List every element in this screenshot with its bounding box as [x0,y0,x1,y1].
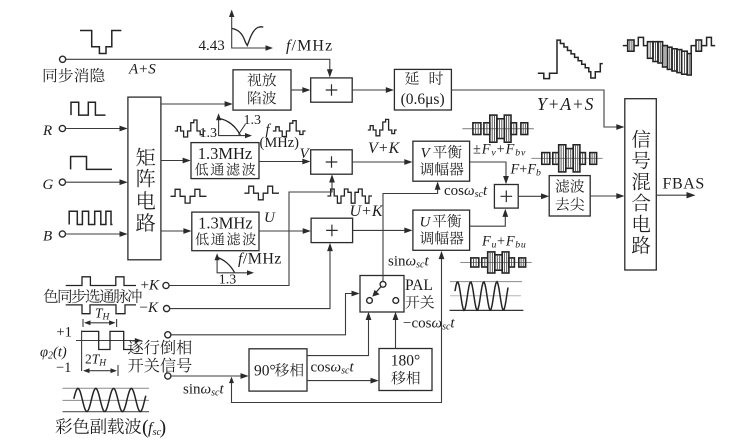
PAL switch left contact [367,298,373,304]
svg-text:U+K: U+K [350,203,384,220]
svg-text:φ2(t): φ2(t) [40,344,67,361]
block video notch 视放陷波 [233,70,291,110]
waveform staircase Y+A+S [538,40,603,79]
waveform burst packet F [531,157,602,159]
wire subcarrier branch to U modulator [232,257,442,403]
PAL switch lever [375,286,381,293]
waveform V before LPF [175,120,206,137]
waveform G single pulse [71,157,112,170]
wire notch to adder1 [291,89,306,91]
PAL switch pole contact [380,281,386,287]
svg-text:1.3MHz: 1.3MHz [198,144,253,163]
notch response curve axes 4.43 f/MHz [232,15,269,49]
svg-text:1.3MHz: 1.3MHz [198,213,253,232]
node -K terminal [164,306,170,312]
waveform U before LPF [171,189,207,203]
wire +K to V adder [169,178,332,285]
svg-text:PAL: PAL [405,277,433,294]
block U balanced modulator U平衡调幅器 [413,210,470,250]
PAL switch right contact [393,298,399,304]
waveform U+K pulses [327,189,372,203]
wire matrix to video notch [161,103,229,105]
wire 90 to PAL switch direct cos [307,316,369,356]
block 180 degree phase shifter 180°移相 [379,349,432,391]
svg-text:−1: −1 [56,360,71,376]
svg-text:1.3: 1.3 [244,113,262,128]
svg-text:U: U [264,210,276,226]
wire R to matrix [66,128,124,130]
node +K terminal [163,282,169,288]
wire switch signal to PAL switch [171,294,355,335]
svg-text:−K: −K [140,300,159,316]
node sync-blanking input terminal [60,56,66,62]
block 1.3MHz lowpass V [191,143,259,179]
wire V modulator to chroma adder [470,162,506,180]
LPF response curve 1.3 with pointer [219,118,248,136]
label 逐行倒相开关信号 [128,340,192,355]
block matrix circuit 矩阵电路 [128,97,161,260]
wire -K to U adder [170,247,330,309]
waveform burst gate -K inverted [66,305,136,314]
block 90 degree phase shifter 90°移相 [249,349,307,391]
waveform U after LPF [244,186,279,200]
svg-text:(0.6μs): (0.6μs) [401,91,445,108]
block PAL switch [360,276,404,313]
wire B to matrix [66,233,124,235]
wire delay to mixer Y+A+S [451,90,620,127]
svg-text:+K: +K [141,277,160,293]
wire spike filter to mixer [590,195,620,197]
adder luma (+) [311,78,353,102]
wire 90 to 180 phase shifter [307,380,374,382]
wire matrix to V lowpass [161,160,187,162]
wire U adder to U modulator [353,229,409,231]
adder V+K (+) [311,150,353,174]
waveform burst gate +K [66,277,136,286]
wire mixer output FBAS [656,194,687,196]
node G input terminal [59,179,65,185]
node R input terminal [59,125,65,131]
waveform burst packet U [460,262,531,264]
wire 180 output -cos to PAL switch [395,316,397,349]
svg-text:): ) [160,416,167,438]
svg-text:f/MHz: f/MHz [286,38,333,55]
svg-text:G: G [43,177,54,193]
block spike filter 滤波去尖 [549,176,590,216]
waveform V+K steps [368,119,397,135]
wire adder1 to delay [352,89,389,91]
label 同步消隐 [44,68,105,83]
waveform R square pulses [71,102,106,115]
adder chroma (+) [494,185,518,209]
svg-text:90°: 90° [254,362,276,379]
svg-text:V+K: V+K [368,140,401,157]
svg-text:180°: 180° [391,352,420,369]
svg-text:+1: +1 [57,325,72,341]
adder U+K (+) [311,218,353,242]
wire matrix to U lowpass [161,230,187,232]
block V balanced modulator V平衡调幅器 [413,141,470,181]
svg-text:R: R [42,123,52,139]
wire PAL switch output cos to V modulator [383,186,438,282]
label 彩色副载波 fsc [56,418,142,434]
svg-text:4.43: 4.43 [199,38,225,54]
block delay 延时 0.6us [394,69,451,110]
svg-text:1.3: 1.3 [200,126,218,141]
wire U LPF to U adder [259,230,307,232]
wire A+S from sync terminal to adder1 [66,59,330,72]
waveform burst packet V [462,128,533,130]
wire G to matrix [66,181,124,183]
label 色同步选通脉冲 [43,289,141,303]
wire chroma adder to spike filter [518,195,545,197]
svg-text:(MHz): (MHz) [260,135,300,151]
node colour subcarrier terminal [165,373,171,379]
wire V LPF to V adder [259,161,306,163]
waveform colour subcarrier sine [63,387,150,389]
svg-text:U: U [420,214,432,230]
svg-text:Y+A+S: Y+A+S [537,94,594,114]
LPF response curve 2 1.3 f/MHz [217,258,250,273]
waveform phi2 line-alternate square [76,331,138,372]
block 1.3MHz lowpass U [192,212,259,251]
block signal mixer 信号混合电路 [625,99,657,270]
svg-text:FBAS: FBAS [663,175,705,192]
svg-text:A+S: A+S [128,62,156,78]
node B input terminal [59,231,65,237]
node line-inversion switch signal terminal [165,332,171,338]
svg-text:f/MHz: f/MHz [238,251,282,268]
waveform B narrow pulses [69,211,112,224]
svg-text:B: B [43,228,52,244]
waveform reference sine near PAL switch [450,281,522,283]
waveform V after LPF [273,121,306,137]
wire V adder to V modulator [352,161,408,163]
composite waveform top right [623,45,628,47]
wire U modulator to chroma adder [470,213,506,227]
waveform sync+blanking pulse [80,31,121,54]
wire subcarrier to 90 phase shifter [171,375,244,377]
